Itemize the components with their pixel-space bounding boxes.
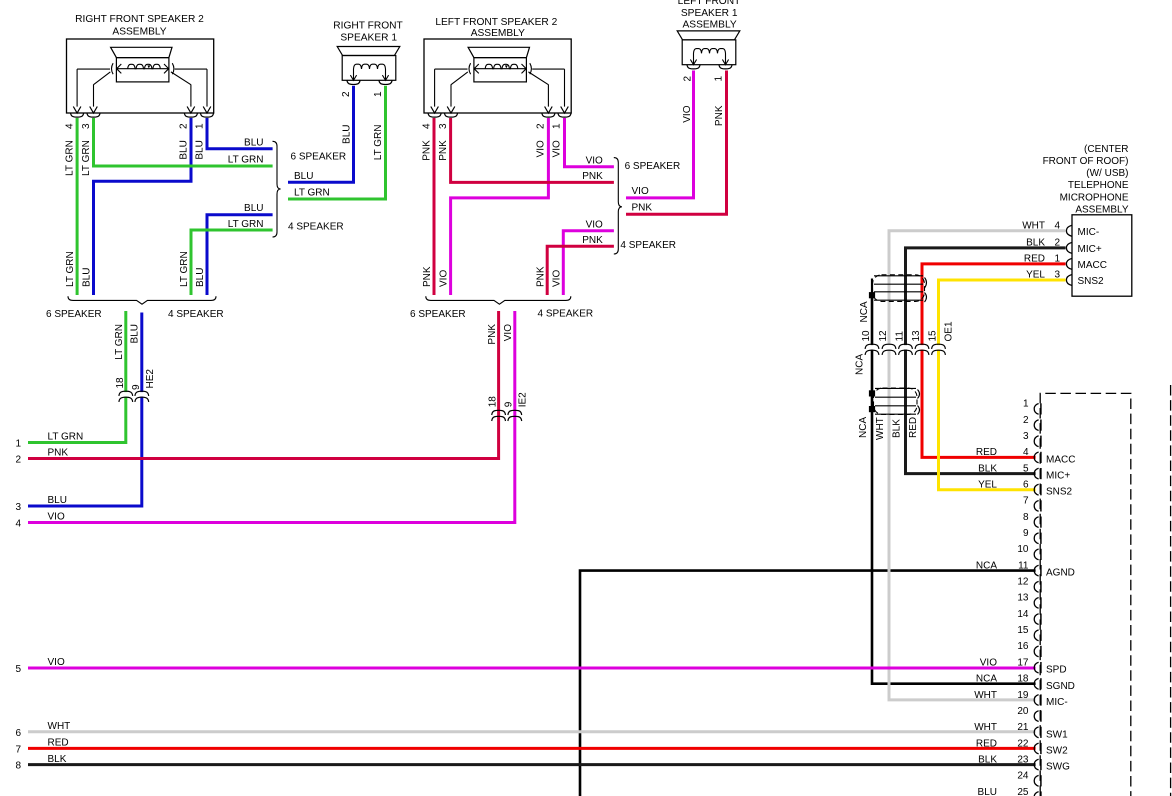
svg-text:8: 8	[1023, 512, 1029, 523]
svg-text:2: 2	[683, 76, 694, 82]
inline connector OE1 pin 10	[865, 344, 879, 355]
svg-text:BLU: BLU	[244, 137, 263, 148]
svg-text:BLU: BLU	[244, 203, 263, 214]
svg-text:BLK: BLK	[1026, 237, 1045, 248]
svg-text:TELEPHONE: TELEPHONE	[1068, 180, 1129, 191]
svg-text:VIO: VIO	[535, 140, 546, 157]
right front speaker 2 assembly box	[67, 39, 214, 113]
svg-text:RED: RED	[976, 447, 997, 458]
svg-text:4: 4	[421, 123, 432, 129]
wire BLK circuit 8 to pin 23 SWG	[28, 763, 1036, 766]
radio pin 19 connector arc	[1034, 695, 1038, 706]
svg-text:SWG: SWG	[1046, 762, 1070, 773]
svg-text:PNK: PNK	[438, 140, 449, 161]
right front speaker 1 symbol	[337, 47, 400, 85]
radio pin 11 connector arc	[1034, 565, 1038, 576]
svg-text:15: 15	[1017, 625, 1029, 636]
wire LT GRN 4-speaker from brace to bundle	[191, 230, 273, 295]
svg-text:3: 3	[438, 123, 449, 129]
radio pin 12 connector arc	[1034, 581, 1038, 592]
svg-text:WHT: WHT	[1022, 220, 1045, 231]
svg-text:LT GRN: LT GRN	[228, 219, 264, 230]
wire LT GRN from pin 4 to 6-speaker bundle	[76, 118, 79, 295]
svg-text:BLU: BLU	[178, 140, 189, 159]
wire NCA black to pin 11 AGND	[580, 571, 1036, 796]
svg-text:1: 1	[1023, 399, 1029, 410]
svg-text:ASSEMBLY: ASSEMBLY	[683, 19, 737, 30]
wire YEL mic pin3 to pin 6 SNS2	[939, 280, 1066, 490]
svg-text:SW1: SW1	[1046, 729, 1068, 740]
svg-text:RED: RED	[908, 417, 919, 438]
svg-text:9: 9	[504, 401, 515, 407]
wire BLU 4-speaker from brace to bundle	[207, 215, 273, 295]
svg-text:IE2: IE2	[518, 392, 529, 407]
radio pin 20 connector arc	[1034, 711, 1038, 722]
svg-text:6 SPEAKER: 6 SPEAKER	[291, 152, 347, 163]
radio pin 6 connector arc	[1034, 484, 1038, 495]
svg-text:9: 9	[1023, 528, 1029, 539]
svg-text:VIO: VIO	[586, 155, 603, 166]
svg-text:NCA: NCA	[858, 417, 869, 438]
wire LT GRN bundle down to circuit 1	[28, 311, 126, 443]
svg-text:LT GRN: LT GRN	[81, 140, 92, 176]
svg-text:LT GRN: LT GRN	[294, 188, 330, 199]
radio pin 9 connector arc	[1034, 533, 1038, 544]
svg-text:NCA: NCA	[855, 354, 866, 375]
wire PNK merged to left front speaker 1 pin 1	[626, 71, 727, 215]
svg-text:MIC-: MIC-	[1046, 697, 1068, 708]
svg-text:FRONT OF ROOF): FRONT OF ROOF)	[1043, 156, 1129, 167]
shield drain junction dot (lower)	[869, 406, 875, 412]
inline connector OE1 pin 11	[899, 344, 913, 355]
wire BLK mic pin2 to pin 5 MIC+	[906, 248, 1066, 474]
svg-text:YEL: YEL	[1026, 270, 1045, 281]
svg-text:VIO: VIO	[48, 512, 65, 523]
svg-text:4 SPEAKER: 4 SPEAKER	[538, 308, 594, 319]
svg-text:PNK: PNK	[48, 448, 69, 459]
svg-text:SPEAKER 1: SPEAKER 1	[681, 8, 738, 19]
wire BLU from pin 1 to 6-speaker brace	[207, 118, 273, 149]
svg-text:NCA: NCA	[976, 560, 997, 571]
wire WHT circuit 6 to pin 21 SW1	[28, 730, 1036, 733]
svg-text:PNK: PNK	[422, 266, 433, 287]
svg-text:RED: RED	[1024, 253, 1045, 264]
svg-text:NCA: NCA	[976, 674, 997, 685]
svg-text:6 SPEAKER: 6 SPEAKER	[46, 309, 102, 320]
wire VIO from pin 2 down-left to 6-speaker bundle	[451, 118, 549, 295]
svg-text:BLU: BLU	[978, 787, 997, 796]
svg-text:17: 17	[1017, 657, 1029, 668]
svg-text:14: 14	[1017, 609, 1029, 620]
brace merging 6-speaker / 4-speaker pairs (right)	[273, 141, 281, 237]
svg-text:WHT: WHT	[974, 722, 997, 733]
svg-text:25: 25	[1017, 787, 1029, 796]
svg-text:6: 6	[15, 728, 21, 739]
svg-text:4: 4	[64, 123, 75, 129]
svg-text:WHT: WHT	[875, 417, 886, 440]
svg-text:MIC+: MIC+	[1046, 471, 1070, 482]
svg-text:3: 3	[15, 502, 21, 513]
svg-text:VIO: VIO	[632, 186, 649, 197]
svg-text:2: 2	[178, 123, 189, 129]
svg-text:ASSEMBLY: ASSEMBLY	[112, 27, 166, 38]
svg-text:LEFT FRONT SPEAKER 2: LEFT FRONT SPEAKER 2	[435, 17, 557, 28]
svg-text:7: 7	[15, 744, 21, 755]
radio pin 7 connector arc	[1034, 501, 1038, 512]
svg-text:13: 13	[1017, 593, 1029, 604]
wire VIO bundle down to circuit 4	[28, 311, 515, 523]
shield drain junction dot	[869, 292, 875, 298]
svg-text:1: 1	[552, 123, 563, 129]
svg-text:11: 11	[1018, 560, 1029, 571]
brace 6-speaker/4-speaker bundle (left speakers)	[426, 296, 571, 304]
radio pin 5 connector arc	[1034, 468, 1038, 479]
radio pin 2 connector arc	[1034, 420, 1038, 431]
svg-text:SPD: SPD	[1046, 665, 1067, 676]
svg-text:18: 18	[488, 396, 499, 408]
svg-text:ASSEMBLY: ASSEMBLY	[1075, 204, 1128, 215]
svg-text:1: 1	[1054, 253, 1060, 264]
svg-text:BLK: BLK	[892, 419, 903, 438]
svg-text:3: 3	[1054, 270, 1060, 281]
svg-text:20: 20	[1017, 706, 1029, 717]
svg-text:BLU: BLU	[342, 125, 353, 144]
svg-text:(W/ USB): (W/ USB)	[1086, 168, 1128, 179]
telephone microphone assembly box	[1072, 215, 1132, 296]
radio pin 1 connector arc	[1034, 404, 1038, 415]
wire BLU merged to right front speaker 1 pin 2	[288, 86, 354, 183]
svg-text:16: 16	[1017, 641, 1029, 652]
svg-text:3: 3	[81, 123, 92, 129]
svg-text:PNK: PNK	[421, 140, 432, 161]
svg-text:4: 4	[1054, 220, 1060, 231]
svg-text:BLU: BLU	[195, 268, 206, 287]
svg-text:VIO: VIO	[586, 219, 603, 230]
svg-text:BLU: BLU	[82, 268, 93, 287]
svg-text:2: 2	[535, 123, 546, 129]
svg-text:LT GRN: LT GRN	[179, 251, 190, 287]
svg-text:3: 3	[1023, 431, 1029, 442]
svg-text:BLK: BLK	[978, 754, 997, 765]
svg-text:MACC: MACC	[1078, 260, 1107, 271]
wire LT GRN from pin 3 to 6-speaker brace	[94, 118, 273, 166]
svg-text:HE2: HE2	[145, 369, 156, 389]
radio pin 10 connector arc	[1034, 549, 1038, 560]
wire VIO merged to left front speaker 1 pin 2	[626, 71, 694, 198]
inline connector on PNK (18)	[492, 410, 506, 421]
svg-text:4 SPEAKER: 4 SPEAKER	[168, 309, 224, 320]
wire PNK bundle down to circuit 2	[28, 311, 499, 459]
svg-text:BLU: BLU	[194, 140, 205, 159]
svg-text:PNK: PNK	[714, 105, 725, 126]
svg-text:RED: RED	[976, 738, 997, 749]
svg-text:LT GRN: LT GRN	[373, 125, 384, 161]
radio pin 22 connector arc	[1034, 743, 1038, 754]
wire PNK 4-speaker from brace to bundle	[547, 246, 614, 295]
svg-text:MICROPHONE: MICROPHONE	[1060, 192, 1129, 203]
svg-text:VIO: VIO	[682, 105, 693, 122]
wire RED mic pin1 to pin 4 MACC	[922, 264, 1066, 458]
svg-text:13: 13	[911, 330, 922, 342]
svg-text:2: 2	[15, 455, 21, 466]
radio pin 23 connector arc	[1034, 759, 1038, 770]
left front speaker 2 assembly box	[424, 39, 571, 113]
svg-text:BLU: BLU	[294, 171, 313, 182]
svg-text:LT GRN: LT GRN	[65, 251, 76, 287]
svg-text:6: 6	[1023, 480, 1029, 491]
svg-text:10: 10	[861, 330, 872, 342]
svg-text:NCA: NCA	[859, 301, 870, 322]
svg-text:VIO: VIO	[980, 657, 997, 668]
mic pin 4 connector arc	[1066, 225, 1071, 236]
svg-text:4: 4	[1023, 447, 1029, 458]
inline connector OE1 pin 12	[882, 344, 896, 355]
svg-text:22: 22	[1017, 738, 1029, 749]
svg-text:(CENTER: (CENTER	[1084, 144, 1128, 155]
svg-text:SW2: SW2	[1046, 746, 1068, 757]
inline connector on VIO (9)	[508, 410, 522, 421]
svg-text:6 SPEAKER: 6 SPEAKER	[625, 161, 681, 172]
svg-text:WHT: WHT	[974, 690, 997, 701]
svg-text:10: 10	[1017, 544, 1029, 555]
shield symbol (upper twisted/shielded cable)	[872, 275, 927, 302]
svg-text:SNS2: SNS2	[1046, 487, 1073, 498]
svg-text:BLU: BLU	[48, 495, 67, 506]
svg-text:ASSEMBLY: ASSEMBLY	[471, 28, 525, 39]
svg-text:7: 7	[1023, 496, 1029, 507]
wire BLU from pin 2 down-left to 6-speaker bundle	[94, 118, 192, 295]
svg-text:2: 2	[1054, 237, 1060, 248]
svg-text:18: 18	[115, 377, 126, 389]
wire WHT mic pin4 to pin 19 MIC-	[889, 231, 1066, 700]
inline connector on LT GRN (18)	[119, 391, 133, 402]
svg-text:LT GRN: LT GRN	[48, 432, 84, 443]
far right dashed connector edge	[1170, 385, 1172, 796]
svg-text:24: 24	[1017, 771, 1029, 782]
svg-text:PNK: PNK	[632, 202, 653, 213]
inline connector OE1 pin 15	[932, 344, 946, 355]
svg-text:PNK: PNK	[582, 235, 603, 246]
wire LT GRN merged to right front speaker 1 pin 1	[288, 86, 386, 199]
svg-text:MIC-: MIC-	[1078, 227, 1100, 238]
radio pin 3 connector arc	[1034, 436, 1038, 447]
wire RED circuit 7 to pin 22 SW2	[28, 747, 1036, 750]
svg-text:PNK: PNK	[487, 324, 498, 345]
svg-text:LEFT FRONT: LEFT FRONT	[678, 0, 741, 7]
svg-text:MIC+: MIC+	[1078, 244, 1102, 255]
svg-text:2: 2	[1023, 415, 1029, 426]
mic pin 1 connector arc	[1066, 259, 1071, 270]
svg-text:PNK: PNK	[582, 171, 603, 182]
svg-text:BLK: BLK	[978, 463, 997, 474]
svg-text:OE1: OE1	[944, 321, 955, 341]
svg-text:6 SPEAKER: 6 SPEAKER	[410, 309, 466, 320]
radio unit dashed connector box	[1040, 393, 1131, 796]
radio pin 17 connector arc	[1034, 662, 1038, 673]
svg-text:1: 1	[714, 76, 725, 82]
svg-text:VIO: VIO	[552, 140, 563, 157]
svg-text:YEL: YEL	[978, 480, 997, 491]
svg-text:AGND: AGND	[1046, 568, 1075, 579]
mic pin 3 connector arc	[1066, 275, 1071, 286]
svg-text:PNK: PNK	[535, 266, 546, 287]
radio pin 25 connector arc	[1034, 792, 1038, 796]
wire VIO 4-speaker from brace to bundle	[563, 231, 614, 295]
svg-text:2: 2	[341, 91, 352, 97]
svg-text:12: 12	[1017, 577, 1029, 588]
svg-text:RIGHT FRONT SPEAKER 2: RIGHT FRONT SPEAKER 2	[75, 14, 204, 25]
svg-text:1: 1	[194, 123, 205, 129]
svg-text:19: 19	[1017, 690, 1029, 701]
radio pin 16 connector arc	[1034, 646, 1038, 657]
shield drain junction dot (upper)	[869, 390, 875, 396]
svg-text:1: 1	[15, 439, 21, 450]
svg-text:1: 1	[373, 91, 384, 97]
inline connector on BLU (9)	[135, 391, 149, 402]
radio pin 24 connector arc	[1034, 775, 1038, 786]
svg-text:15: 15	[927, 330, 938, 342]
svg-text:SGND: SGND	[1046, 681, 1075, 692]
left front speaker 1 symbol	[677, 31, 740, 69]
svg-text:RIGHT FRONT: RIGHT FRONT	[333, 21, 402, 32]
radio pin 15 connector arc	[1034, 630, 1038, 641]
brace merging 6-speaker / 4-speaker pairs (left)	[614, 158, 622, 254]
wire VIO circuit 5 to pin 17 SPD	[28, 667, 1036, 670]
svg-text:VIO: VIO	[503, 324, 514, 341]
svg-text:SPEAKER 1: SPEAKER 1	[340, 32, 397, 43]
mic pin 2 connector arc	[1066, 243, 1071, 254]
svg-text:LT GRN: LT GRN	[228, 155, 264, 166]
shield symbol (lower twisted/shielded cable)	[874, 388, 920, 415]
svg-text:21: 21	[1017, 722, 1029, 733]
inline connector OE1 pin 13	[915, 344, 929, 355]
radio pin 21 connector arc	[1034, 727, 1038, 738]
svg-text:4 SPEAKER: 4 SPEAKER	[288, 222, 344, 233]
radio pin 13 connector arc	[1034, 598, 1038, 609]
right front speaker 2 symbol	[71, 47, 214, 117]
svg-text:SNS2: SNS2	[1078, 276, 1105, 287]
svg-text:LT GRN: LT GRN	[64, 140, 75, 176]
wire PNK from pin 4 to 6-speaker bundle	[433, 118, 436, 295]
svg-text:VIO: VIO	[439, 270, 450, 287]
wire VIO from pin 1 to 6-speaker brace	[565, 118, 614, 167]
wire BLU bundle down to circuit 3	[28, 313, 142, 507]
svg-text:5: 5	[1023, 463, 1029, 474]
svg-text:9: 9	[131, 384, 142, 390]
left front speaker 2 symbol	[428, 47, 571, 117]
svg-text:LT GRN: LT GRN	[114, 324, 125, 360]
svg-text:BLU: BLU	[130, 324, 141, 343]
svg-text:VIO: VIO	[551, 270, 562, 287]
brace 6-speaker/4-speaker bundle (right speakers)	[68, 296, 216, 304]
svg-text:4: 4	[15, 519, 21, 530]
svg-text:MACC: MACC	[1046, 454, 1075, 465]
wire NCA shield drain to pin 18 SGND	[872, 295, 1036, 684]
svg-text:5: 5	[15, 664, 21, 675]
svg-text:4 SPEAKER: 4 SPEAKER	[620, 240, 676, 251]
wire PNK from pin 3 to 6-speaker brace	[451, 118, 614, 182]
radio pin 8 connector arc	[1034, 517, 1038, 528]
svg-text:18: 18	[1017, 674, 1029, 685]
svg-text:8: 8	[15, 761, 21, 772]
svg-text:12: 12	[878, 330, 889, 342]
radio pin 18 connector arc	[1034, 678, 1038, 689]
radio pin 14 connector arc	[1034, 614, 1038, 625]
radio pin 4 connector arc	[1034, 452, 1038, 463]
svg-text:23: 23	[1017, 754, 1029, 765]
svg-text:11: 11	[894, 331, 905, 342]
